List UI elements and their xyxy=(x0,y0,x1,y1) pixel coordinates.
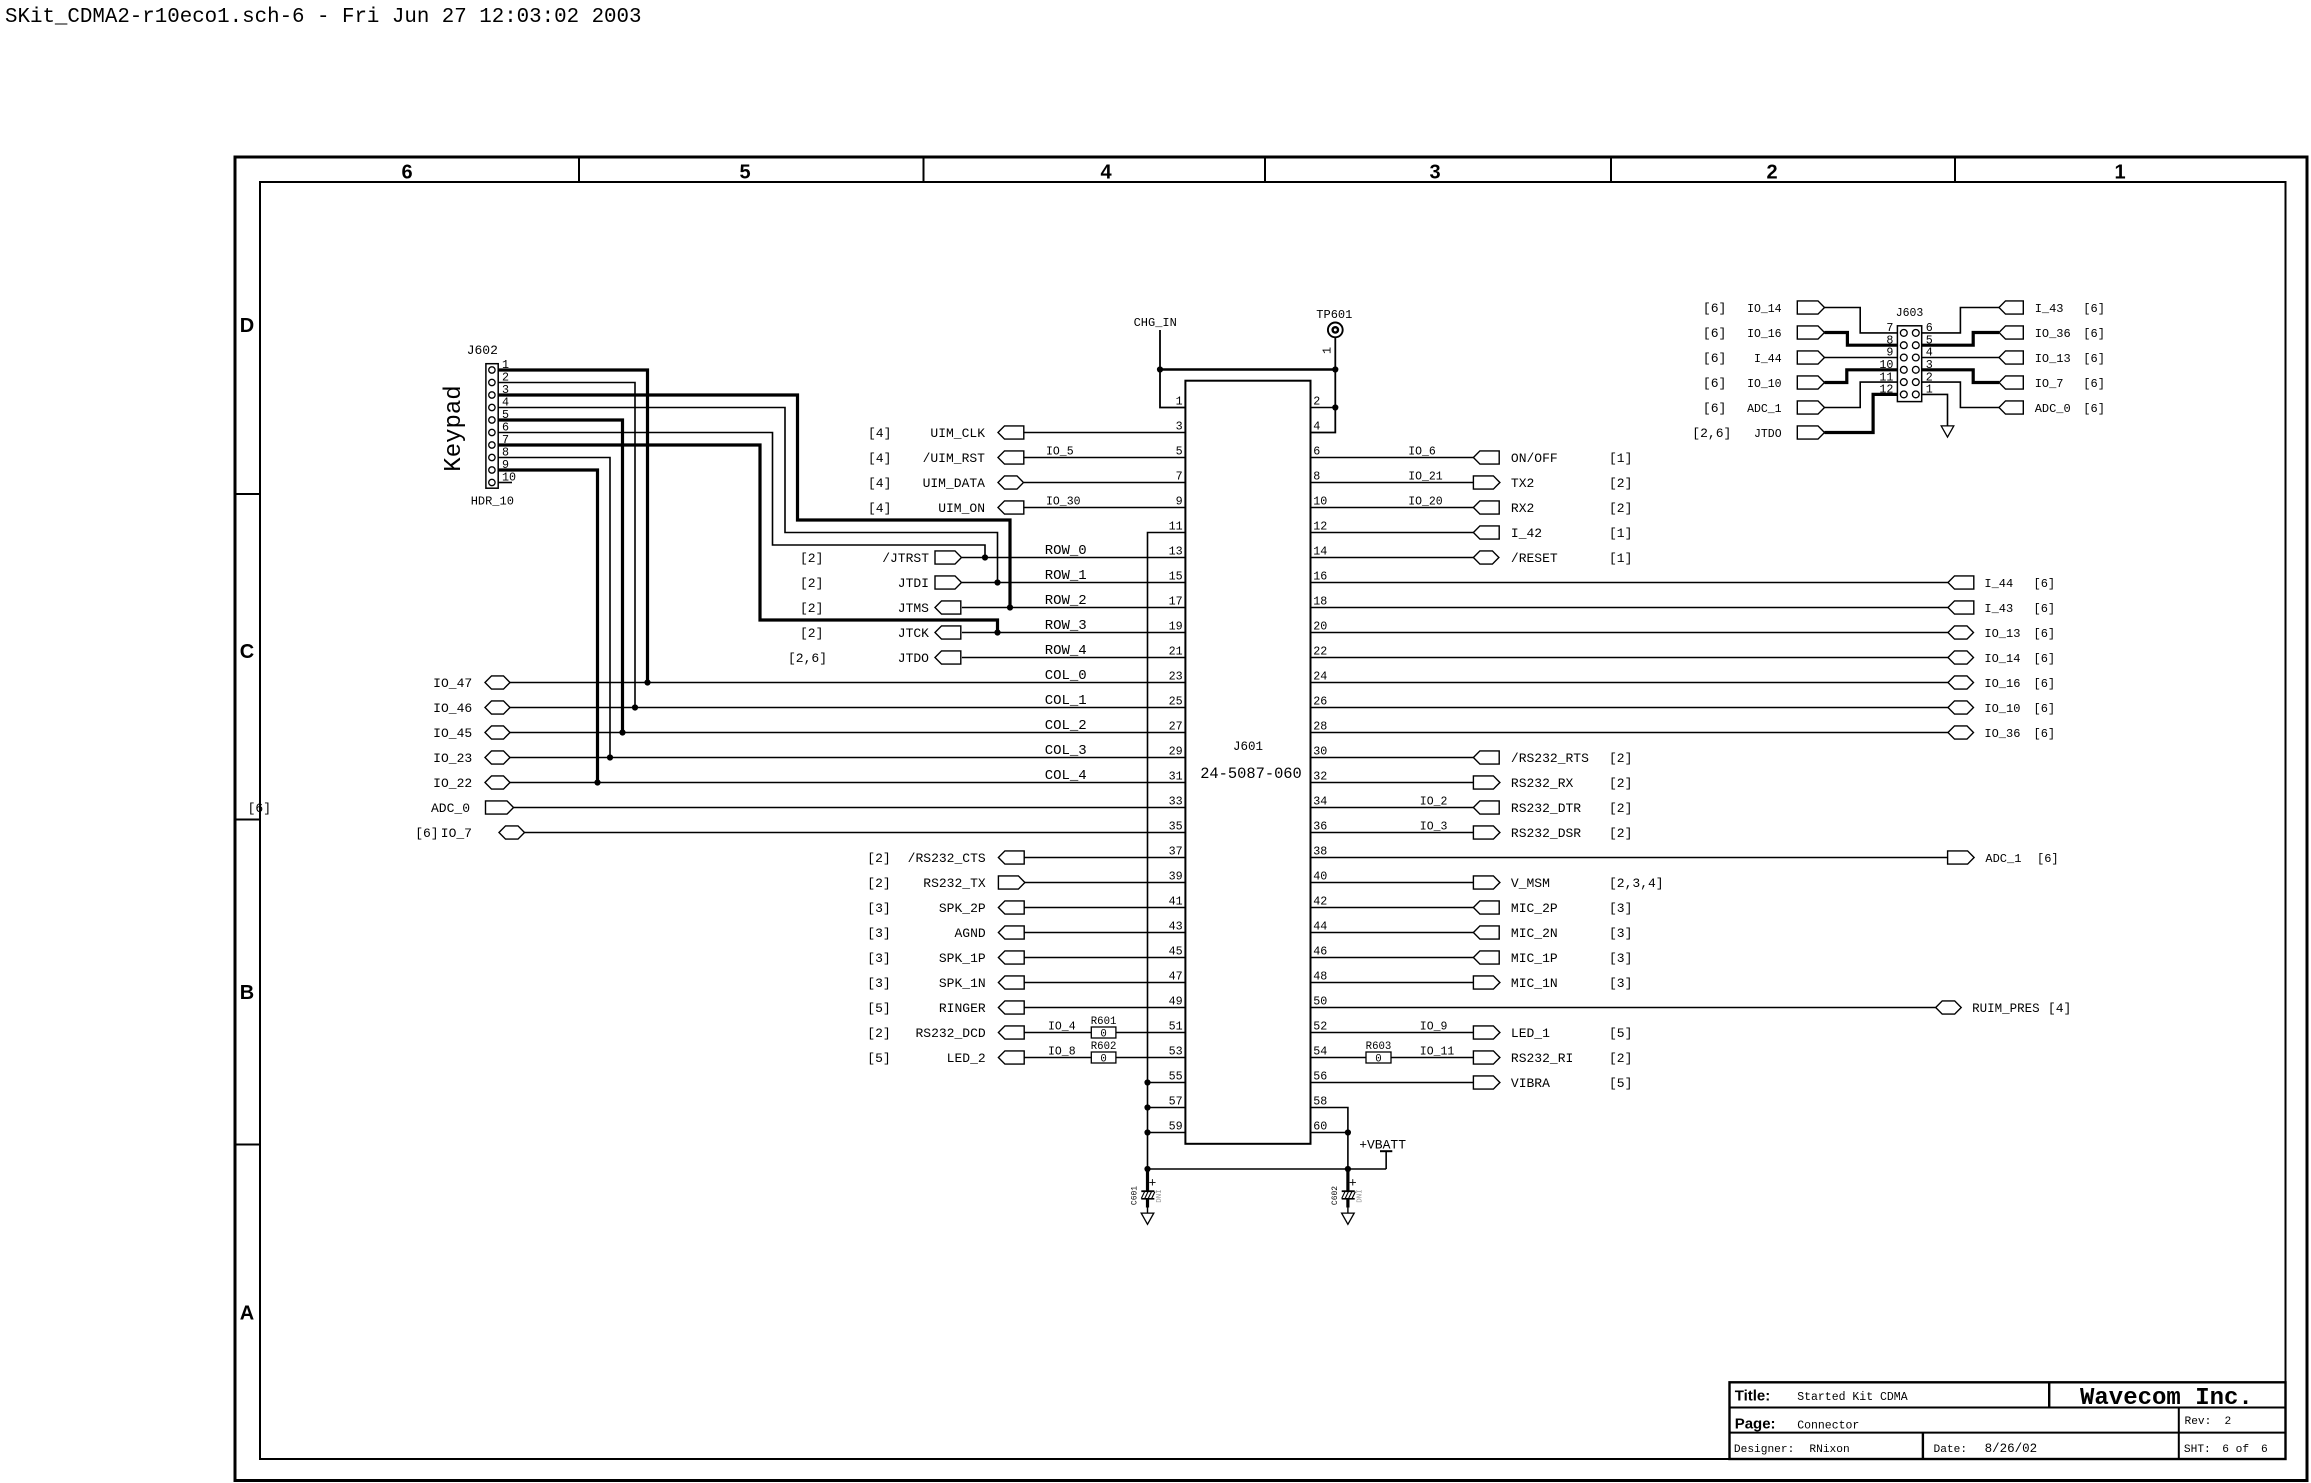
net I_43 flag xyxy=(1948,601,1974,614)
svg-text:10: 10 xyxy=(1313,495,1327,509)
svg-text:/RS232_RTS: /RS232_RTS xyxy=(1511,751,1589,766)
net IO_36 flag (J603 right) xyxy=(1999,326,2023,339)
svg-text:7: 7 xyxy=(1176,470,1183,484)
net IO_46 flag xyxy=(485,701,510,714)
J602 pin 3 circle xyxy=(489,392,495,398)
capacitor C601 top lead xyxy=(1146,1169,1149,1191)
svg-text:ROW_0: ROW_0 xyxy=(1045,543,1087,559)
svg-text:[6]: [6] xyxy=(2034,677,2056,691)
svg-text:[4]: [4] xyxy=(868,426,891,441)
net /RS232_CTS flag xyxy=(998,851,1024,864)
svg-text:6: 6 xyxy=(401,161,412,183)
net IO_23 flag xyxy=(485,751,510,764)
svg-text:[6]: [6] xyxy=(1703,351,1726,366)
svg-text:A: A xyxy=(240,1303,254,1325)
net IO_47 flag xyxy=(485,676,510,689)
svg-text:47: 47 xyxy=(1169,970,1183,984)
svg-text:ADC_0: ADC_0 xyxy=(431,801,470,816)
svg-text:RINGER: RINGER xyxy=(939,1001,986,1016)
wire ADC_1 to J603 xyxy=(1825,382,1898,407)
net /RESET flag xyxy=(1473,551,1499,564)
svg-text:1: 1 xyxy=(2114,161,2125,183)
junction ROW_3 / keypad pin7 xyxy=(994,629,1000,635)
wire J601 pin 57 stub xyxy=(1148,1107,1186,1109)
svg-text:[2]: [2] xyxy=(867,1026,890,1041)
wire J602 pin1 to COL_0 (thick) xyxy=(498,370,647,683)
svg-text:17: 17 xyxy=(1169,595,1183,609)
capacitor C601 bottom lead xyxy=(1146,1199,1149,1208)
frame row tick xyxy=(235,1144,260,1146)
title block Rev/SHT cell divider xyxy=(2178,1408,2180,1460)
svg-text:2: 2 xyxy=(2225,1416,2232,1428)
wire IO_7 to J603 pin xyxy=(1922,370,1999,383)
svg-text:RS232_RI: RS232_RI xyxy=(1511,1051,1573,1066)
svg-text:RUIM_PRES: RUIM_PRES xyxy=(1972,1002,2040,1016)
wire R602 to J601 pin 53 xyxy=(1116,1057,1186,1059)
svg-text:51: 51 xyxy=(1169,1020,1183,1034)
svg-text:37: 37 xyxy=(1169,845,1183,859)
svg-text:IO_3: IO_3 xyxy=(1420,820,1448,833)
svg-text:JTDI: JTDI xyxy=(898,576,929,591)
svg-text:RS232_DTR: RS232_DTR xyxy=(1511,801,1581,816)
svg-text:IO_36: IO_36 xyxy=(2035,327,2071,341)
wire R601 to J601 pin 51 xyxy=(1116,1032,1186,1034)
svg-text:[6]: [6] xyxy=(2083,327,2105,341)
resistor R601 body xyxy=(1091,1027,1116,1038)
wire CHG_IN vertical xyxy=(1159,330,1161,370)
svg-text:IO_4: IO_4 xyxy=(1048,1020,1076,1033)
svg-text:[2]: [2] xyxy=(1609,751,1632,766)
svg-text:IO_36: IO_36 xyxy=(1984,727,2020,741)
net RS232_RI flag xyxy=(1473,1051,1500,1064)
svg-text:24: 24 xyxy=(1313,670,1327,684)
svg-text:5: 5 xyxy=(739,161,750,183)
svg-text:/UIM_RST: /UIM_RST xyxy=(923,451,986,466)
wire /UIM_RST to J601 pin 5 xyxy=(1024,457,1186,459)
wire J601 pin11 ground bus vertical xyxy=(1148,533,1186,1170)
J602 pin 5 circle xyxy=(489,417,495,423)
capacitor C602 top plate xyxy=(1342,1190,1355,1192)
net V_MSM flag xyxy=(1473,876,1500,889)
svg-text:R603: R603 xyxy=(1366,1041,1392,1053)
svg-text:[6]: [6] xyxy=(1703,401,1726,416)
svg-text:[5]: [5] xyxy=(867,1001,890,1016)
svg-text:COL_2: COL_2 xyxy=(1045,718,1087,734)
net JTMS flag xyxy=(935,601,961,614)
svg-text:Started Kit CDMA: Started Kit CDMA xyxy=(1797,1391,1908,1404)
svg-text:59: 59 xyxy=(1169,1120,1183,1134)
wire J602 pin7 to ROW_3 (thick) xyxy=(498,445,997,633)
svg-text:/RESET: /RESET xyxy=(1511,551,1558,566)
svg-text:Page:: Page: xyxy=(1735,1416,1776,1433)
wire ROW_4 to J601 pin 21 xyxy=(962,657,1186,659)
svg-text:ROW_4: ROW_4 xyxy=(1045,643,1087,659)
svg-text:[3]: [3] xyxy=(1609,901,1632,916)
svg-text:25: 25 xyxy=(1169,695,1183,709)
J603 pin 9 circle xyxy=(1900,354,1907,361)
title block row divider 1 xyxy=(1730,1407,2286,1409)
net RS232_TX flag xyxy=(998,876,1025,889)
wire ROW_3 to J601 pin 19 xyxy=(962,632,1186,634)
J603 pin 5 circle xyxy=(1912,342,1919,349)
svg-text:ON/OFF: ON/OFF xyxy=(1511,451,1558,466)
svg-text:IO_2: IO_2 xyxy=(1420,795,1448,808)
svg-text:[2,6]: [2,6] xyxy=(1692,426,1731,441)
svg-text:IO_14: IO_14 xyxy=(1747,303,1782,316)
wire UIM_DATA to J601 pin 7 xyxy=(1024,482,1186,484)
svg-text:[6]: [6] xyxy=(1703,376,1726,391)
ground symbol at C601 xyxy=(1141,1213,1154,1224)
svg-text:JTDO: JTDO xyxy=(1754,428,1782,441)
capacitor C601 top plate xyxy=(1141,1190,1154,1192)
title block row divider 2 xyxy=(1730,1432,2286,1434)
net I_43 flag (J603 right) xyxy=(1999,301,2023,314)
junction bus / C602 xyxy=(1345,1166,1351,1172)
svg-text:[6]: [6] xyxy=(1703,326,1726,341)
svg-text:VIBRA: VIBRA xyxy=(1511,1076,1550,1091)
svg-text:[2]: [2] xyxy=(1609,501,1632,516)
net SPK_1N flag xyxy=(998,976,1024,989)
svg-text:COL_1: COL_1 xyxy=(1045,693,1087,709)
wire ROW_1 to J601 pin 15 xyxy=(962,582,1186,584)
svg-text:IO_14: IO_14 xyxy=(1984,652,2020,666)
svg-text:JTMS: JTMS xyxy=(898,601,929,616)
svg-text:R602: R602 xyxy=(1091,1041,1117,1053)
svg-text:SKit_CDMA2-r10eco1.sch-6 - Fri: SKit_CDMA2-r10eco1.sch-6 - Fri Jun 27 12… xyxy=(5,6,642,29)
wire J601 pin 34 to RS232_DTR flag xyxy=(1311,807,1474,809)
svg-text:MIC_1N: MIC_1N xyxy=(1511,976,1558,991)
wire J601 pin 8 to TX2 flag xyxy=(1311,482,1474,484)
svg-text:Title:: Title: xyxy=(1735,1388,1771,1405)
svg-text:TP601: TP601 xyxy=(1316,308,1352,322)
svg-text:49: 49 xyxy=(1169,995,1183,1009)
svg-text:41: 41 xyxy=(1169,895,1183,909)
svg-text:22: 22 xyxy=(1313,645,1327,659)
svg-text:SHT:: SHT: xyxy=(2184,1444,2211,1456)
svg-text:SPK_1N: SPK_1N xyxy=(939,976,986,991)
svg-text:[2]: [2] xyxy=(1609,826,1632,841)
frame column tick xyxy=(578,157,580,182)
J602 pin 4 circle xyxy=(489,404,495,410)
svg-text:42: 42 xyxy=(1313,895,1327,909)
svg-text:[3]: [3] xyxy=(1609,951,1632,966)
wire /RS232_CTS to J601 pin 37 xyxy=(1024,857,1185,859)
svg-text:28: 28 xyxy=(1313,720,1327,734)
svg-text:[2]: [2] xyxy=(867,876,890,891)
svg-text:[2]: [2] xyxy=(1609,801,1632,816)
frame row tick xyxy=(235,819,260,821)
svg-text:ADC_1: ADC_1 xyxy=(1747,403,1782,416)
wire RS232_DCD to R601 xyxy=(1024,1032,1091,1034)
svg-text:Designer:: Designer: xyxy=(1734,1444,1794,1456)
net IO_22 flag xyxy=(485,776,510,789)
svg-text:UIM_DATA: UIM_DATA xyxy=(923,476,986,491)
wire SPK_2P to J601 pin 41 xyxy=(1024,907,1185,909)
svg-text:LED_2: LED_2 xyxy=(947,1051,986,1066)
J602 pin 10 circle xyxy=(489,479,495,485)
svg-text:B: B xyxy=(240,982,254,1004)
svg-text:30: 30 xyxy=(1313,745,1327,759)
net I_44 flag (J603) xyxy=(1797,351,1824,364)
svg-text:8: 8 xyxy=(1313,470,1320,484)
junction COL_1 / keypad pin2 xyxy=(632,704,638,710)
svg-text:1: 1 xyxy=(1321,347,1335,354)
wire J601 pin 28 to IO_36 flag xyxy=(1311,732,1949,734)
junction CHG_IN bus xyxy=(1157,366,1163,372)
svg-text:2: 2 xyxy=(1313,395,1320,409)
svg-text:[2]: [2] xyxy=(800,601,823,616)
junction ground bus pin 57 xyxy=(1144,1104,1150,1110)
net UIM_CLK flag xyxy=(998,426,1024,439)
svg-text:16: 16 xyxy=(1313,570,1327,584)
connector J601 body xyxy=(1185,381,1310,1144)
wire J602 pin3 to ROW_2 (thick) xyxy=(498,395,1010,608)
junction J601 pin2 tap xyxy=(1332,404,1338,410)
wire COL_2 to J601 pin 27 xyxy=(510,732,1185,734)
svg-text:23: 23 xyxy=(1169,670,1183,684)
svg-text:[6]: [6] xyxy=(2083,352,2105,366)
svg-text:15: 15 xyxy=(1169,570,1183,584)
svg-text:50: 50 xyxy=(1313,995,1327,1009)
wire J601 pin 36 to RS232_DSR flag xyxy=(1311,832,1474,834)
wire ROW_0 to J601 pin 13 xyxy=(962,557,1186,559)
svg-text:+: + xyxy=(1349,1175,1357,1190)
net IO_36 flag xyxy=(1948,726,1974,739)
junction ground bus pin 55 xyxy=(1144,1079,1150,1085)
wire J602 pin6 to ROW_0 xyxy=(498,433,985,558)
junction COL_0 / keypad pin1 xyxy=(644,679,650,685)
svg-text:IO_45: IO_45 xyxy=(433,726,472,741)
net RS232_DCD flag xyxy=(998,1026,1024,1039)
net RUIM_PRES flag xyxy=(1936,1001,1962,1014)
svg-text:JTCK: JTCK xyxy=(898,626,929,641)
capacitor C602 top lead xyxy=(1346,1169,1349,1191)
wire J602 pin2 to COL_1 xyxy=(498,383,635,708)
net UIM_ON flag xyxy=(998,501,1024,514)
svg-text:[2,6]: [2,6] xyxy=(788,651,827,666)
wire R603 to RS232_RI flag xyxy=(1391,1057,1473,1059)
net /UIM_RST flag xyxy=(998,451,1024,464)
wire J601 pin 22 to IO_14 flag xyxy=(1311,657,1949,659)
wire JTDO to J603 xyxy=(1825,394,1898,432)
svg-text:18: 18 xyxy=(1313,595,1327,609)
svg-text:J603: J603 xyxy=(1896,307,1924,320)
J603 pin 3 circle xyxy=(1912,366,1919,373)
svg-text:2: 2 xyxy=(1766,161,1777,183)
connector J603 body xyxy=(1897,326,1921,402)
svg-text:IO_22: IO_22 xyxy=(433,776,472,791)
inner frame xyxy=(260,182,2286,1459)
svg-text:IO_46: IO_46 xyxy=(433,701,472,716)
title block outline xyxy=(1730,1382,2286,1459)
svg-text:ROW_2: ROW_2 xyxy=(1045,593,1087,609)
net JTDI flag xyxy=(935,576,962,589)
wire TP601 vertical xyxy=(1334,337,1336,369)
wire RINGER to J601 pin 49 xyxy=(1024,1007,1185,1009)
wire I_44 to J603 xyxy=(1825,357,1898,359)
svg-text:IO_13: IO_13 xyxy=(2035,352,2071,366)
net /JTRST flag xyxy=(935,551,962,564)
wire LED_2 to R602 xyxy=(1024,1057,1091,1059)
wire J601 pin 26 to IO_10 flag xyxy=(1311,707,1949,709)
J603 pin 6 circle xyxy=(1912,330,1919,337)
svg-text:1: 1 xyxy=(1176,395,1183,409)
svg-text:11: 11 xyxy=(1169,520,1183,534)
wire J601 pin 46 to MIC_1P flag xyxy=(1311,957,1474,959)
wire IO_10 to J603 xyxy=(1825,370,1898,383)
svg-text:IO_23: IO_23 xyxy=(433,751,472,766)
wire J601 pin 38 to ADC_1 flag xyxy=(1311,857,1948,859)
svg-text:[6]: [6] xyxy=(2083,302,2105,316)
svg-text:RS232_RX: RS232_RX xyxy=(1511,776,1574,791)
svg-text:RS232_TX: RS232_TX xyxy=(923,876,986,891)
svg-text:I_43: I_43 xyxy=(1984,602,2013,616)
svg-text:MIC_2P: MIC_2P xyxy=(1511,901,1558,916)
svg-text:52: 52 xyxy=(1313,1020,1327,1034)
wire J601 pin 10 to RX2 flag xyxy=(1311,507,1474,509)
svg-text:ROW_1: ROW_1 xyxy=(1045,568,1087,584)
frame row tick xyxy=(235,493,260,495)
svg-text:24-5087-060: 24-5087-060 xyxy=(1200,765,1302,783)
J603 pin 12 circle xyxy=(1900,391,1907,398)
J603 pin 4 circle xyxy=(1912,354,1919,361)
svg-text:5: 5 xyxy=(1176,445,1183,459)
wire J602 pin9 to COL_4 (thick) xyxy=(498,470,597,783)
wire COL_1 to J601 pin 25 xyxy=(510,707,1185,709)
wire bottom bus xyxy=(1148,1168,1387,1170)
svg-text:/JTRST: /JTRST xyxy=(882,551,929,566)
svg-text:34: 34 xyxy=(1313,795,1327,809)
junction ROW_1 / keypad pin4 xyxy=(994,579,1000,585)
svg-text:IO_30: IO_30 xyxy=(1046,495,1081,508)
svg-text:D: D xyxy=(240,315,254,337)
capacitor C601 hatched bottom plate xyxy=(1141,1192,1144,1199)
J603 pin 10 circle xyxy=(1900,366,1907,373)
svg-text:[6]: [6] xyxy=(2037,852,2059,866)
net JTCK flag xyxy=(935,626,961,639)
svg-text:[2]: [2] xyxy=(1609,476,1632,491)
wire J601 pin 30 to /RS232_RTS flag xyxy=(1311,757,1474,759)
wire IO_14 to J603 xyxy=(1825,308,1898,333)
svg-text:53: 53 xyxy=(1169,1045,1183,1059)
svg-text:43: 43 xyxy=(1169,920,1183,934)
capacitor C602 hatched bottom plate xyxy=(1342,1192,1345,1199)
wire IO_7 to J601 pin 35 xyxy=(525,832,1186,834)
svg-text:55: 55 xyxy=(1169,1070,1183,1084)
svg-text:IO_47: IO_47 xyxy=(433,676,472,691)
net TX2 flag xyxy=(1473,476,1500,489)
svg-text:V_MSM: V_MSM xyxy=(1511,876,1550,891)
net /RS232_RTS flag xyxy=(1473,751,1499,764)
wire J601 pin 52 to LED_1 flag xyxy=(1311,1032,1474,1034)
junction pin 60 tap xyxy=(1345,1129,1351,1135)
svg-text:Date:: Date: xyxy=(1934,1444,1968,1456)
J603 pin 8 circle xyxy=(1900,342,1907,349)
net IO_14 flag (J603) xyxy=(1797,301,1824,314)
resistor R602 body xyxy=(1091,1052,1116,1063)
net UIM_DATA flag xyxy=(998,476,1024,489)
svg-text:0: 0 xyxy=(1100,1053,1106,1065)
J602 pin 9 circle xyxy=(489,467,495,473)
svg-text:[6]: [6] xyxy=(415,826,438,841)
svg-text:DNI: DNI xyxy=(1357,1189,1365,1203)
svg-text:31: 31 xyxy=(1169,770,1183,784)
svg-text:COL_4: COL_4 xyxy=(1045,768,1087,784)
test point TP601 symbol xyxy=(1328,323,1343,338)
svg-text:IO_6: IO_6 xyxy=(1408,445,1436,458)
net IO_10 flag (J603) xyxy=(1797,376,1824,389)
svg-text:27: 27 xyxy=(1169,720,1183,734)
wire J601 pin 14 to /RESET flag xyxy=(1311,557,1474,559)
net IO_10 flag xyxy=(1948,701,1974,714)
svg-text:4: 4 xyxy=(1313,420,1320,434)
svg-text:33: 33 xyxy=(1169,795,1183,809)
svg-text:60: 60 xyxy=(1313,1120,1327,1134)
net IO_7 flag xyxy=(499,826,525,839)
net RS232_DSR flag xyxy=(1473,826,1500,839)
wire J601 pin 42 to MIC_2P flag xyxy=(1311,907,1474,909)
svg-text:[6]: [6] xyxy=(2034,602,2056,616)
svg-text:38: 38 xyxy=(1313,845,1327,859)
svg-text:J601: J601 xyxy=(1233,740,1263,754)
wire SPK_1P to J601 pin 45 xyxy=(1024,957,1185,959)
net JTDO flag xyxy=(935,651,961,664)
svg-text:[6]: [6] xyxy=(2034,627,2056,641)
wire J602 pin10 stub xyxy=(498,482,512,484)
svg-text:MIC_1P: MIC_1P xyxy=(1511,951,1558,966)
wire J601 pin 20 to IO_13 flag xyxy=(1311,632,1949,634)
svg-text:HDR_10: HDR_10 xyxy=(471,495,514,509)
svg-text:UIM_ON: UIM_ON xyxy=(938,501,985,516)
capacitor C602 bottom lead xyxy=(1346,1199,1349,1208)
svg-text:RX2: RX2 xyxy=(1511,501,1534,516)
title block Date cell divider xyxy=(1922,1433,1924,1459)
junction ROW_2 / keypad pin3 xyxy=(1007,604,1013,610)
svg-text:IO_8: IO_8 xyxy=(1048,1045,1076,1058)
wire J601 pin 16 to I_44 flag xyxy=(1311,582,1949,584)
frame column tick xyxy=(1954,157,1956,182)
svg-text:[2,3,4]: [2,3,4] xyxy=(1609,876,1664,891)
svg-text:3: 3 xyxy=(1176,420,1183,434)
svg-text:[3]: [3] xyxy=(867,901,890,916)
svg-text:4: 4 xyxy=(1100,161,1112,183)
svg-text:IO_7: IO_7 xyxy=(2035,377,2064,391)
svg-text:57: 57 xyxy=(1169,1095,1183,1109)
net IO_7 flag (J603 right) xyxy=(1999,376,2023,389)
svg-text:LED_1: LED_1 xyxy=(1511,1026,1550,1041)
svg-text:IO_5: IO_5 xyxy=(1046,445,1074,458)
svg-text:[2]: [2] xyxy=(800,626,823,641)
junction ground bus pin 59 xyxy=(1144,1129,1150,1135)
wire CHG_IN to TP601 horizontal xyxy=(1160,368,1335,370)
svg-text:C: C xyxy=(240,641,254,663)
svg-text:AGND: AGND xyxy=(954,926,985,941)
net ADC_1 flag xyxy=(1948,851,1975,864)
svg-text:[4]: [4] xyxy=(2048,1001,2071,1016)
frame column tick xyxy=(1610,157,1612,182)
wire TP601 down to pin2/pin4 xyxy=(1311,370,1336,433)
svg-text:[3]: [3] xyxy=(867,926,890,941)
net SPK_2P flag xyxy=(998,901,1024,914)
svg-text:IO_7: IO_7 xyxy=(441,826,472,841)
svg-text:Wavecom Inc.: Wavecom Inc. xyxy=(2080,1385,2253,1412)
svg-text:RNixon: RNixon xyxy=(1809,1444,1849,1456)
wire ROW_2 to J601 pin 17 xyxy=(962,607,1186,609)
net IO_16 flag xyxy=(1948,676,1974,689)
svg-text:29: 29 xyxy=(1169,745,1183,759)
power symbol +VBATT bar xyxy=(1380,1150,1392,1152)
wire J603 pin1 to ground xyxy=(1922,394,1948,426)
